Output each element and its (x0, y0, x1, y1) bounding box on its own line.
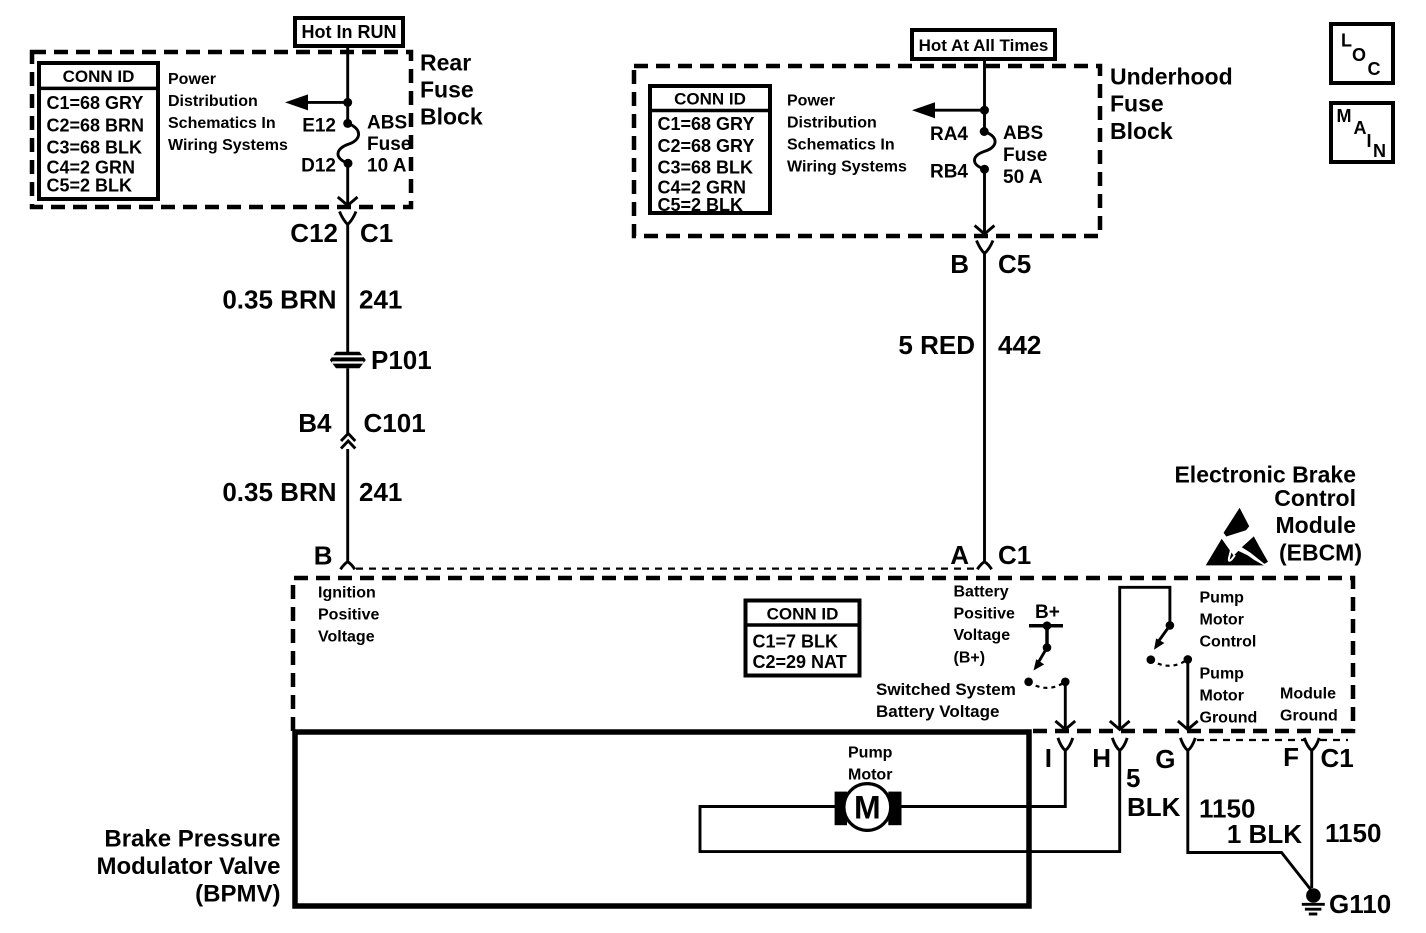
value label ABS Fuse 50 A (1003, 123, 1047, 188)
label Battery Positive Voltage (B+) (954, 584, 1015, 667)
svg-text:C2=68 BRN: C2=68 BRN (47, 116, 145, 136)
svg-text:Battery Voltage: Battery Voltage (876, 702, 999, 721)
relay contact open pump motor (1147, 655, 1156, 664)
svg-text:Hot At All Times: Hot At All Times (919, 36, 1049, 55)
connector fork pin H (1112, 738, 1127, 751)
svg-text:Hot In RUN: Hot In RUN (302, 22, 397, 42)
wire label 0.35 BRN | 241 (lower) (222, 477, 402, 507)
svg-text:(B+): (B+) (954, 650, 986, 667)
pin label D12 (301, 156, 336, 177)
wire from Hot At All Times to fuse RA4 (983, 59, 986, 131)
splice P101 (330, 352, 366, 369)
svg-text:Ground: Ground (1280, 708, 1338, 725)
B+ supply bar (1029, 621, 1063, 630)
connector C5 fork at B (977, 241, 994, 254)
pin label H (1092, 743, 1111, 773)
connector fork at pin A (977, 562, 991, 570)
svg-text:Voltage: Voltage (954, 627, 1011, 644)
pin label RB4 (930, 162, 968, 183)
note text power distribution (underhood) (787, 93, 907, 176)
svg-text:C101: C101 (364, 408, 426, 438)
svg-text:B+: B+ (1035, 602, 1060, 623)
pin label B4 | C101 (298, 408, 425, 438)
wire arrow to other circuits (underhood) (912, 102, 985, 118)
svg-text:N: N (1373, 141, 1386, 161)
relay contact open B+ (1024, 678, 1033, 687)
svg-text:I: I (1045, 743, 1052, 773)
svg-text:I: I (1367, 131, 1372, 151)
svg-text:C1: C1 (998, 540, 1031, 570)
svg-text:Ignition: Ignition (318, 585, 376, 602)
svg-text:C4=2 GRN: C4=2 GRN (47, 158, 136, 178)
svg-text:C1: C1 (360, 218, 393, 248)
SECTION: ebcm (293, 462, 1391, 920)
label box Hot In RUN (295, 18, 403, 46)
svg-text:C3=68 BLK: C3=68 BLK (47, 138, 143, 158)
relay contact stem B+ (1043, 626, 1052, 652)
svg-text:D12: D12 (301, 156, 336, 177)
svg-text:O: O (1352, 45, 1366, 65)
wire 1150 BLK from pin G (1188, 751, 1311, 890)
svg-text:Distribution: Distribution (787, 115, 877, 132)
pin label G (1155, 744, 1175, 774)
reference box LOC (1331, 24, 1393, 83)
svg-text:Schematics In: Schematics In (168, 115, 276, 132)
svg-text:Fuse: Fuse (1003, 145, 1047, 166)
svg-text:Fuse: Fuse (1110, 91, 1164, 117)
wire pin I to motor (901, 751, 1065, 807)
wire 241 BRN upper segment (346, 225, 349, 353)
SECTION: bpmv (96, 732, 1119, 908)
svg-text:C5=2 BLK: C5=2 BLK (658, 195, 744, 215)
svg-text:241: 241 (359, 285, 402, 315)
pin label F (1283, 742, 1299, 772)
wire motor to pin H via loop (700, 751, 1120, 852)
svg-text:241: 241 (359, 477, 402, 507)
svg-text:P101: P101 (371, 345, 432, 375)
block name Underhood Fuse Block (1110, 64, 1233, 145)
underhood fuse block dashed border (634, 66, 1100, 236)
svg-text:0.35 BRN: 0.35 BRN (222, 285, 336, 315)
svg-text:C1=68 GRY: C1=68 GRY (658, 114, 755, 134)
rear fuse block dashed border (32, 52, 411, 207)
wire pump motor control from pin H (1110, 587, 1174, 729)
svg-text:Module: Module (1280, 686, 1336, 703)
wire fuse output with arrow (338, 163, 358, 205)
relay blade arrow B+ (1034, 648, 1048, 671)
wire 241 BRN lower segment (346, 449, 349, 562)
svg-text:(BPMV): (BPMV) (195, 881, 280, 908)
svg-text:Motor: Motor (1200, 688, 1244, 705)
wire 442 RED segment (983, 254, 986, 563)
svg-text:Switched System: Switched System (876, 680, 1016, 699)
svg-text:0.35 BRN: 0.35 BRN (222, 477, 336, 507)
wire label 1150 (left) (1199, 794, 1255, 824)
connector table CONN ID (EBCM) (746, 601, 860, 676)
svg-text:C5=2 BLK: C5=2 BLK (47, 176, 133, 196)
svg-text:(EBCM): (EBCM) (1279, 540, 1362, 566)
svg-text:Positive: Positive (954, 606, 1015, 623)
node junction at rear fuse feed (343, 98, 352, 107)
ESD sensitive device symbol (1206, 508, 1268, 566)
wire fuse output with arrow (underhood) (975, 169, 995, 234)
pin label B at BPMV (314, 541, 333, 571)
connector fork at pin B (341, 562, 355, 570)
svg-text:Voltage: Voltage (318, 629, 375, 646)
fuse ABS 50 A element (974, 132, 995, 170)
relay blade arrow pump motor (1154, 625, 1170, 649)
svg-text:BLK: BLK (1127, 792, 1181, 822)
svg-text:Power: Power (168, 71, 216, 88)
connector fork pin F (1304, 738, 1319, 751)
svg-text:ABS: ABS (367, 113, 407, 134)
label Module Ground (1280, 686, 1338, 725)
label Pump Motor Ground (1200, 666, 1258, 727)
svg-text:B: B (314, 541, 333, 571)
block name Rear Fuse Block (420, 50, 483, 130)
svg-text:Rear: Rear (420, 50, 471, 76)
svg-text:Wiring Systems: Wiring Systems (168, 137, 288, 154)
svg-text:C1=68 GRY: C1=68 GRY (47, 93, 144, 113)
svg-text:C2=68 GRY: C2=68 GRY (658, 136, 755, 156)
label Pump Motor (BPMV) (848, 745, 893, 784)
svg-text:Distribution: Distribution (168, 93, 258, 110)
label B+ (1035, 602, 1060, 623)
note text power distribution (rear) (168, 71, 288, 154)
svg-text:Motor: Motor (1200, 612, 1244, 629)
pin label C1 (EBCM) (1321, 743, 1354, 773)
fuse ABS 10 A element (338, 123, 359, 163)
svg-text:L: L (1341, 31, 1352, 51)
svg-text:Module: Module (1276, 512, 1357, 538)
svg-text:C12: C12 (290, 218, 338, 248)
connector table CONN ID (rear) (39, 63, 158, 199)
connector dashed link B to A (356, 567, 976, 569)
relay output node to pin I (1055, 678, 1075, 730)
label Ignition Positive Voltage (318, 585, 379, 646)
svg-text:Control: Control (1200, 634, 1257, 651)
svg-text:Block: Block (420, 104, 483, 130)
svg-text:RB4: RB4 (930, 162, 968, 183)
SECTION: middle wires (222, 225, 1041, 571)
wire label 5 RED | 442 (898, 330, 1041, 360)
svg-text:Ground: Ground (1200, 710, 1258, 727)
ground G110 (1302, 888, 1325, 914)
value label ABS Fuse 10 A (367, 113, 411, 177)
connector table CONN ID (underhood) (650, 86, 770, 215)
fuse ABS 50A terminal RA4 (980, 127, 989, 136)
svg-text:C: C (1368, 59, 1381, 79)
reference box MAIN (1331, 103, 1393, 162)
svg-text:M: M (1337, 106, 1352, 126)
pin label C12 | C1 (290, 218, 393, 248)
svg-text:Wiring Systems: Wiring Systems (787, 159, 907, 176)
svg-text:Modulator Valve: Modulator Valve (96, 853, 280, 880)
svg-text:A: A (1354, 118, 1367, 138)
svg-text:Battery: Battery (954, 584, 1009, 601)
SECTION: rear fuse block (32, 18, 483, 248)
svg-text:Control: Control (1274, 485, 1356, 511)
block name Brake Pressure Modulator Valve (BPMV) (96, 826, 280, 908)
svg-text:CONN ID: CONN ID (63, 67, 135, 86)
svg-text:C1: C1 (1321, 743, 1354, 773)
pin label RA4 (930, 124, 968, 145)
connector fork pin G (1180, 738, 1195, 751)
svg-text:CONN ID: CONN ID (674, 90, 746, 109)
svg-text:50 A: 50 A (1003, 167, 1043, 188)
svg-text:Underhood: Underhood (1110, 64, 1233, 90)
svg-text:B4: B4 (298, 408, 332, 438)
relay dashed arc B+ (1029, 682, 1066, 688)
svg-text:Schematics In: Schematics In (787, 137, 895, 154)
pump motor M1 (835, 784, 902, 831)
svg-text:5: 5 (1126, 763, 1140, 793)
wire arrow to other circuits (rear) (285, 94, 348, 110)
in-line connector C101 double chevron (341, 434, 355, 449)
svg-text:CONN ID: CONN ID (767, 605, 839, 624)
svg-text:Fuse: Fuse (367, 134, 411, 155)
svg-text:1150: 1150 (1325, 818, 1381, 848)
ground label G110 (1329, 889, 1391, 919)
svg-text:Fuse: Fuse (420, 77, 474, 103)
splice label P101 (371, 345, 432, 375)
label Pump Motor Control (1200, 590, 1257, 651)
EBCM dashed border (293, 578, 1353, 731)
connector dashed link G to F (1197, 739, 1348, 741)
connector C1 fork at C12 (340, 212, 357, 225)
svg-text:ABS: ABS (1003, 123, 1043, 144)
svg-text:Block: Block (1110, 118, 1173, 144)
svg-text:442: 442 (998, 330, 1041, 360)
pin label E12 (302, 116, 336, 137)
svg-text:C1=7 BLK: C1=7 BLK (753, 632, 839, 652)
svg-text:M: M (854, 790, 881, 826)
svg-text:Power: Power (787, 93, 835, 110)
SECTION: corner boxes (1331, 24, 1393, 162)
block name Electronic Brake Control Module (EBCM) (1174, 462, 1362, 566)
wire label 0.35 BRN | 241 (upper) (222, 285, 402, 315)
fuse ABS 10A terminal D12 (344, 159, 353, 168)
relay output node to pin G (1178, 655, 1198, 729)
svg-text:Electronic Brake: Electronic Brake (1174, 462, 1356, 488)
svg-text:Brake Pressure: Brake Pressure (104, 826, 280, 853)
svg-text:5 RED: 5 RED (898, 330, 975, 360)
svg-text:1 BLK: 1 BLK (1227, 819, 1302, 849)
svg-text:Positive: Positive (318, 607, 379, 624)
svg-text:C3=68 BLK: C3=68 BLK (658, 158, 754, 178)
label Switched System Battery Voltage (876, 680, 1016, 721)
SECTION: underhood fuse block (634, 30, 1233, 279)
svg-text:E12: E12 (302, 116, 336, 137)
svg-text:C2=29 NAT: C2=29 NAT (753, 652, 847, 672)
svg-text:H: H (1092, 743, 1111, 773)
wire from Hot In RUN to fuse E12 (346, 46, 349, 123)
fuse ABS 10A terminal E12 (343, 119, 352, 128)
node junction at underhood fuse feed (980, 106, 989, 115)
svg-text:B: B (950, 249, 969, 279)
wire label 5 BLK (1126, 763, 1181, 822)
svg-text:A: A (950, 540, 969, 570)
svg-text:Pump: Pump (1200, 590, 1245, 607)
label box Hot At All Times (912, 30, 1055, 59)
svg-text:F: F (1283, 742, 1299, 772)
svg-text:10 A: 10 A (367, 156, 407, 177)
wire label 1 BLK (1227, 819, 1302, 849)
svg-text:C5: C5 (998, 249, 1031, 279)
wire 1150 BLK from pin F (1310, 751, 1313, 889)
svg-text:RA4: RA4 (930, 124, 968, 145)
svg-text:Pump: Pump (848, 745, 893, 762)
wire 241 BRN below splice (346, 368, 349, 433)
fuse ABS 50A terminal RB4 (980, 165, 989, 174)
svg-text:G110: G110 (1329, 889, 1391, 919)
pin label A | C1 (950, 540, 1031, 570)
pin label B | C5 (950, 249, 1031, 279)
relay dashed arc pump motor (1151, 659, 1188, 665)
svg-text:Motor: Motor (848, 767, 892, 784)
BPMV solid border (295, 732, 1029, 906)
svg-text:Pump: Pump (1200, 666, 1245, 683)
svg-text:G: G (1155, 744, 1175, 774)
pin label I (1045, 743, 1052, 773)
wire label 1150 (right) (1325, 818, 1381, 848)
connector fork pin I (1058, 738, 1073, 751)
